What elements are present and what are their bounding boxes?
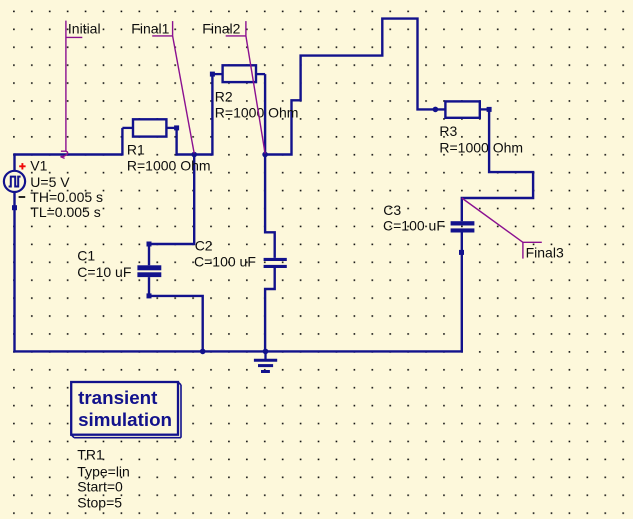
- V1 plus polarity mark: [19, 163, 25, 169]
- wire: riser up to R1 left lead level: [121, 128, 123, 156]
- junction node before R3: [433, 107, 439, 113]
- junction node C1 branch on ground bus: [200, 349, 206, 355]
- wire: C1 bottom over and down to bus: [149, 296, 203, 353]
- svg-text:Initial: Initial: [68, 20, 101, 36]
- wire: C1 bottom stub: [148, 277, 150, 296]
- resistor R2: [210, 65, 265, 82]
- wire: V1 top lead: [13, 153, 15, 170]
- svg-text:C=100 uF: C=100 uF: [194, 254, 256, 270]
- svg-text:C=100 uF: C=100 uF: [383, 217, 445, 233]
- node label Initial: [61, 20, 101, 158]
- ground: [254, 351, 277, 371]
- svg-text:U=5 V: U=5 V: [30, 174, 70, 190]
- svg-text:V1: V1: [30, 157, 47, 173]
- wire: main line from R1 to R2 riser (through node Final1): [176, 153, 213, 155]
- junction node at R2/C2/staircase (Final2 net): [262, 152, 268, 158]
- svg-text:transient: transient: [78, 387, 158, 408]
- wire: V1 top terminal to R1 riser: [13, 153, 122, 155]
- svg-text:R1: R1: [127, 141, 145, 157]
- svg-text:simulation: simulation: [78, 409, 172, 430]
- wire: node Final1 down to C1 top branch: [149, 153, 194, 244]
- wire: node Final2 down to C2 jog: [265, 153, 275, 258]
- transient simulation box TR1: [71, 382, 181, 438]
- svg-text:Type=lin: Type=lin: [77, 463, 130, 479]
- wire: ground bus: [13, 350, 463, 352]
- svg-text:Stop=5: Stop=5: [77, 495, 122, 511]
- capacitor C3: [451, 221, 475, 255]
- svg-text:Final2: Final2: [202, 20, 240, 36]
- svg-text:C3: C3: [383, 202, 401, 218]
- svg-text:Start=0: Start=0: [77, 479, 123, 495]
- junction node ground on bus: [263, 349, 269, 355]
- wire: R2 right terminal down to main line: [264, 74, 266, 156]
- capacitor C1: [137, 242, 161, 299]
- wire: R3 right terminal down and over to C3 top: [462, 109, 533, 221]
- svg-text:TH=0.005 s: TH=0.005 s: [30, 189, 103, 205]
- svg-text:Final3: Final3: [526, 245, 564, 261]
- svg-text:R=1000 Ohm: R=1000 Ohm: [215, 104, 299, 120]
- node label Final3: [462, 198, 564, 261]
- svg-text:R2: R2: [215, 88, 233, 104]
- wire: C2 bottom jog down to bus: [265, 268, 275, 353]
- svg-text:TR1: TR1: [77, 447, 104, 463]
- node label Final1: [131, 20, 194, 153]
- node label Final2: [202, 20, 265, 153]
- svg-text:C=10 uF: C=10 uF: [77, 264, 131, 280]
- wire: C3 bottom stub and down to ground bus: [461, 233, 463, 353]
- svg-text:R3: R3: [439, 123, 457, 139]
- svg-text:C1: C1: [77, 248, 95, 264]
- wire: C1 top stub: [148, 244, 150, 265]
- svg-text:Final1: Final1: [131, 20, 169, 36]
- junction node at R1/C1/R2 (Final1 net): [191, 152, 197, 158]
- resistor R1: [122, 119, 179, 136]
- svg-text:TL=0.005 s: TL=0.005 s: [30, 204, 100, 220]
- voltage source V1 (rectangular pulse source): [4, 163, 26, 210]
- resistor R3: [445, 101, 491, 117]
- svg-text:C2: C2: [195, 238, 213, 254]
- wire: R1 right terminal down to main line: [175, 128, 177, 156]
- svg-text:R=1000 Ohm: R=1000 Ohm: [439, 139, 523, 155]
- wire: R2 left riser: [211, 74, 213, 156]
- wire: V1 bottom lead down to ground bus: [13, 192, 15, 352]
- wire: node Final2 to staircase: [264, 19, 445, 155]
- capacitor C2: [264, 258, 287, 268]
- V1 minus polarity mark: [19, 196, 26, 198]
- svg-text:R=1000 Ohm: R=1000 Ohm: [127, 157, 211, 173]
